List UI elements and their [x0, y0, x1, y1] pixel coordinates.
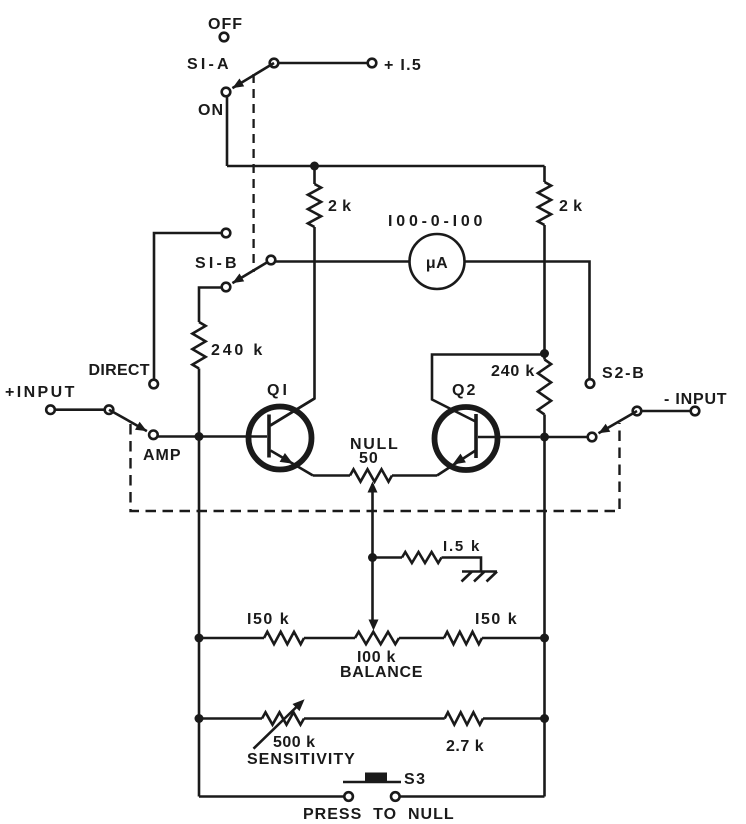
node sensitivity row left — [195, 714, 204, 723]
svg-text:S2-B: S2-B — [602, 365, 646, 382]
ground chassis symbol — [462, 572, 498, 582]
switch S2-B pole (input) — [633, 407, 642, 416]
wire balance row — [199, 637, 545, 640]
node balance row left — [195, 634, 204, 643]
resistor 2k left lead — [313, 166, 316, 184]
resistor 2.7k — [445, 712, 483, 724]
switch S1-B upper contact — [222, 229, 231, 238]
wire contact to Q2 base node — [545, 436, 588, 439]
switch S2-B AMP contact — [588, 433, 597, 442]
meter M1 microammeter — [410, 234, 465, 289]
wire right column lower — [543, 415, 546, 797]
potentiometer BALANCE 100k — [355, 632, 399, 644]
svg-text:I.5 k: I.5 k — [443, 538, 481, 555]
svg-text:I50 k: I50 k — [247, 611, 290, 628]
switch S1-B lower contact — [222, 283, 231, 292]
wiper BALANCE arrow — [369, 620, 379, 631]
wire S1-A pole to +1.5 terminal — [279, 62, 369, 65]
wire bottom right — [400, 795, 545, 798]
switch S1-B pole — [267, 256, 276, 265]
node bus / 2k left junction — [310, 162, 319, 171]
svg-text:500 k: 500 k — [273, 734, 316, 751]
wire S1-B pole to meter — [275, 260, 410, 263]
svg-text:SI-B: SI-B — [195, 255, 240, 272]
switch S1-A blade — [232, 63, 274, 88]
wire S1-B contact to 240k left — [199, 288, 222, 323]
wire bottom left — [199, 795, 344, 798]
wire supply bus — [227, 165, 545, 168]
resistor 240k right — [538, 360, 551, 415]
svg-text:ON: ON — [198, 102, 224, 119]
node wiper / 1.5k junction — [368, 553, 377, 562]
wire Q2 base to node — [478, 436, 540, 439]
resistor 2k right lead — [543, 166, 546, 182]
terminal +INPUT — [46, 405, 55, 414]
node Q1 base junction — [195, 432, 204, 441]
svg-text:2 k: 2 k — [559, 198, 582, 215]
svg-text:OFF: OFF — [208, 16, 243, 33]
terminal +1.5 — [368, 59, 377, 68]
switch S1-B blade — [232, 260, 271, 283]
wire left column down — [198, 437, 201, 797]
switch S3 right contact — [391, 792, 400, 801]
svg-text:+ I.5: + I.5 — [384, 57, 422, 74]
wiper NULL arrow — [368, 482, 378, 493]
svg-text:+INPUT: +INPUT — [5, 384, 77, 401]
switch S3 left contact — [344, 792, 353, 801]
terminal DIRECT — [149, 380, 158, 389]
resistor 150k left — [264, 632, 304, 644]
wire ON contact to supply bus — [226, 97, 229, 167]
potentiometer 500k SENSITIVITY — [262, 712, 304, 724]
switch S1-A OFF contact — [220, 33, 229, 42]
wiper arrow 500k — [254, 706, 299, 749]
switch S1-A ON contact — [222, 88, 231, 97]
resistor 2k right — [538, 182, 551, 225]
potentiometer NULL 50 — [350, 469, 392, 481]
svg-text:2 k: 2 k — [328, 198, 351, 215]
wire -INPUT terminal to pole — [641, 410, 690, 413]
svg-text:2.7 k: 2.7 k — [446, 738, 484, 755]
switch S2-A blade — [109, 410, 147, 431]
switch S2-A pole — [105, 405, 114, 414]
wire AMP contact to Q1 base — [158, 435, 267, 438]
wire 1.5k to ground — [442, 558, 482, 572]
resistor 240k left — [192, 322, 205, 369]
wire S1-B upper throw to DIRECT — [154, 233, 222, 379]
svg-text:DIRECT: DIRECT — [89, 362, 150, 379]
svg-text:μA: μA — [426, 255, 448, 272]
svg-text:I00-0-I00: I00-0-I00 — [388, 213, 486, 230]
node balance row right — [540, 634, 549, 643]
wire sensitivity row — [199, 717, 545, 720]
svg-text:BALANCE: BALANCE — [340, 664, 423, 681]
wire 240k left to base node — [198, 369, 201, 437]
switch S2-B input blade — [599, 411, 638, 433]
resistor 1.5k — [402, 552, 442, 563]
svg-text:S3: S3 — [404, 771, 427, 788]
svg-text:SENSITIVITY: SENSITIVITY — [247, 751, 356, 768]
svg-text:50: 50 — [359, 450, 379, 467]
svg-text:SI-A: SI-A — [187, 56, 232, 73]
switch S3 pushbutton bar — [343, 781, 401, 784]
svg-text:PRESS TO NULL: PRESS TO NULL — [303, 806, 455, 823]
wire to 1.5k — [373, 556, 403, 559]
node sensitivity row right — [540, 714, 549, 723]
resistor 150k right — [444, 632, 482, 644]
wire meter to S2-B — [465, 262, 590, 380]
resistor 2k left — [308, 184, 321, 227]
wire +INPUT terminal to pole — [55, 408, 105, 411]
switch S2-A AMP contact — [149, 431, 158, 440]
node Q2 collector junction — [540, 349, 549, 358]
svg-text:AMP: AMP — [143, 447, 182, 464]
svg-text:240 k: 240 k — [491, 363, 535, 380]
wire wiper line — [371, 484, 374, 623]
wire right column (collector node to bottom) — [543, 225, 546, 360]
svg-text:I50 k: I50 k — [475, 611, 518, 628]
dashed gang link S1-A/S1-B — [252, 74, 254, 272]
switch S2-B contact — [586, 379, 595, 388]
svg-text:240 k: 240 k — [211, 342, 265, 359]
node Q2 base junction — [540, 433, 549, 442]
wire 2k to Q1 collector — [270, 227, 315, 426]
dashed gang enclosure S2 — [131, 423, 620, 511]
transistor Q1 — [249, 399, 315, 476]
svg-text:QI: QI — [267, 382, 290, 399]
svg-text:Q2: Q2 — [452, 382, 477, 399]
switch S1-A pole — [270, 59, 279, 68]
terminal -INPUT — [691, 407, 700, 416]
transistor Q2 — [432, 355, 545, 476]
wire emitter bus — [313, 474, 437, 477]
